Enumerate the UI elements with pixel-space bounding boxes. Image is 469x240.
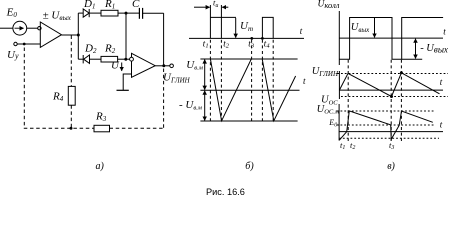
dashed timing t1c (347, 60, 349, 141)
resistor R3 (94, 125, 110, 132)
pulse t1 edge (209, 5, 211, 38)
svg-text:t1: t1 (203, 38, 209, 49)
sawtooth Uглин (339, 73, 439, 97)
label б) (245, 161, 254, 172)
tick c2 top level (336, 73, 339, 75)
label R4 (52, 91, 64, 104)
dashed timing line t4 (261, 40, 263, 121)
triangle top level (200, 58, 297, 60)
svg-text:в): в) (387, 161, 395, 172)
label -Uвых (420, 43, 448, 55)
label t2 c (350, 140, 355, 151)
pulse width measure arrows (194, 6, 228, 8)
node dot t4 (261, 37, 264, 40)
label D2 (84, 43, 97, 56)
caption Рис. 16.6 (206, 187, 245, 197)
wire D1 to R1 (89, 12, 101, 14)
svg-text:Uколл: Uколл (318, 0, 340, 10)
wire branch split vertical (77, 13, 79, 59)
node dot R2/R1 junction (124, 58, 127, 61)
dotted Uос.м level (341, 110, 434, 112)
input bubble U2 (130, 57, 134, 61)
wire R2 to U2 (118, 58, 130, 60)
label -Uв.м (179, 99, 202, 112)
label R1 (104, 0, 115, 11)
svg-text:Uу: Uу (7, 49, 19, 61)
wire input to source E0 (0, 27, 13, 29)
svg-text:tи: tи (213, 0, 218, 9)
y axis c2 (338, 71, 340, 99)
svg-text:R4: R4 (52, 91, 64, 104)
node dot on Uy wire (23, 43, 26, 46)
diode D2 (83, 55, 89, 63)
resistor R2 (101, 56, 118, 62)
label t1 (203, 38, 209, 49)
output terminal bubble (170, 64, 174, 68)
label R3 (95, 111, 107, 124)
dashed wire output down to rail (163, 69, 165, 129)
label Uвых c1 (351, 22, 370, 34)
svg-text:Um: Um (240, 20, 253, 33)
label E0 (6, 7, 18, 20)
wire U2 ground input (123, 74, 131, 90)
svg-text:R3: R3 (95, 111, 107, 124)
wire U2 output (155, 65, 170, 67)
svg-text:- Uвых: - Uвых (420, 43, 448, 55)
label t4 (264, 38, 271, 49)
dotted bottom level c2 (341, 96, 448, 98)
wire D2 to R2 (90, 58, 102, 60)
node dot rail (70, 127, 73, 130)
svg-text:а): а) (96, 161, 105, 172)
diode D1 (83, 9, 89, 17)
square wave Uколл (339, 18, 443, 60)
pulse top Um level (210, 16, 236, 18)
dashed wire Uy node down (23, 48, 25, 129)
y axis c3 (338, 104, 340, 141)
dashed timing line t1 (209, 40, 211, 121)
ground (117, 89, 129, 91)
node dot peak c2 (400, 71, 403, 74)
svg-text:R2: R2 (104, 43, 116, 56)
label Uглин (163, 71, 191, 84)
svg-text:D2: D2 (84, 43, 97, 56)
wire top branch to D1 (78, 12, 83, 14)
resistor R4 (68, 86, 75, 105)
label t1 c (340, 140, 345, 151)
op-amp U1 (40, 22, 61, 47)
input bubble Uy (14, 42, 17, 45)
label t2 (223, 38, 230, 49)
svg-text:t: t (440, 119, 443, 129)
svg-text:Рис. 16.6: Рис. 16.6 (206, 187, 245, 197)
amplitude arrow lower (204, 91, 206, 121)
label C (132, 0, 140, 10)
y axis c1 (338, 11, 340, 65)
svg-text:Uв.м: Uв.м (186, 59, 203, 72)
op-amp U2 (132, 53, 156, 77)
dashed timing line pulse2 end (272, 40, 274, 121)
wire source to op-amp U1 (27, 27, 38, 29)
svg-text:D1: D1 (83, 0, 95, 11)
label Uос (321, 95, 338, 107)
wire lower branch to D2 (78, 58, 83, 60)
triangle waveform (210, 59, 295, 121)
label ± Uвых (43, 9, 72, 22)
svg-text:R1: R1 (104, 0, 115, 11)
pulse t2 edge (220, 5, 222, 38)
svg-text:t: t (300, 26, 303, 36)
label t axis b1 (300, 26, 303, 36)
svg-text:t: t (303, 76, 306, 86)
Um arrow (235, 18, 237, 38)
svg-text:t: t (440, 77, 443, 87)
label Uос.м (317, 104, 339, 116)
t axis pulse graph (189, 37, 304, 39)
label t axis c3 (440, 119, 443, 129)
dashed wire R4 to rail (70, 105, 72, 128)
svg-text:U: U (111, 60, 120, 72)
dotted E0 level (341, 124, 434, 126)
label E0 c3 (328, 118, 337, 128)
svg-text:б): б) (245, 161, 254, 172)
svg-text:E0: E0 (328, 118, 337, 128)
svg-text:± Uвых: ± Uвых (43, 9, 72, 22)
svg-text:t2: t2 (350, 140, 355, 151)
svg-text:Uвых: Uвых (351, 22, 370, 34)
wire Uy to U1 lower input (17, 43, 40, 45)
svg-text:t1: t1 (340, 140, 345, 151)
label D1 (83, 0, 95, 11)
node dot R1/C (125, 12, 128, 15)
tick Uос.м (337, 110, 340, 112)
dashed timing line t3 (251, 40, 253, 121)
triangle axis (200, 89, 299, 91)
dashed timing t2c (390, 60, 392, 141)
svg-text:t3: t3 (389, 140, 394, 151)
label t3 (248, 38, 255, 49)
label Uв.м (186, 59, 203, 72)
sawtooth Uос (339, 111, 433, 140)
wire R1 to C (118, 12, 139, 14)
node dot valley c2 (390, 95, 393, 98)
label U with down arrow (111, 60, 122, 72)
t axis c1 (339, 37, 443, 39)
svg-text:t4: t4 (264, 38, 271, 49)
t axis c2 (339, 89, 443, 91)
wire node to U2 input vertical (125, 13, 127, 59)
dashed timing t3c (400, 60, 402, 141)
label t axis c2 (440, 77, 443, 87)
label R2 (104, 43, 116, 56)
wire feedback vertical (163, 13, 165, 66)
dashed wire U1 output down to R4 (70, 36, 72, 87)
node dot U2 output (162, 64, 165, 67)
label Um (240, 20, 253, 33)
label Uy (7, 49, 19, 61)
svg-text:UГЛИН: UГЛИН (312, 66, 339, 78)
input bubble U1 (38, 27, 41, 30)
resistor R1 (101, 10, 118, 16)
svg-text:t: t (443, 26, 446, 36)
label Uглин c2 (312, 66, 339, 78)
label Uколл (318, 0, 340, 10)
-Uвых arrow (415, 39, 417, 59)
t axis c3 (339, 131, 443, 133)
dashed timing line t2 (220, 40, 222, 121)
capacitor C (139, 8, 142, 19)
svg-text:UГЛИН: UГЛИН (163, 71, 191, 84)
triangle bottom level (200, 120, 297, 122)
pulse 2 (262, 17, 273, 38)
dashed rail left (24, 127, 94, 129)
svg-text:- Uв.м: - Uв.м (179, 99, 202, 112)
dotted top level c2 (341, 73, 448, 75)
-Uвых level line (402, 58, 423, 60)
node dot t3 (250, 37, 253, 40)
label a) (96, 161, 105, 172)
label tи (213, 0, 218, 9)
svg-text:t2: t2 (223, 38, 230, 49)
current source E0 (13, 21, 27, 35)
label t3 c (389, 140, 394, 151)
amplitude arrow upper (204, 60, 206, 90)
node dot U1 output (77, 34, 80, 37)
Uвых arrow (374, 18, 376, 37)
label t axis b2 (303, 76, 306, 86)
dotted below axis level (339, 137, 439, 139)
dashed rail right (110, 127, 164, 129)
wire C to feedback vertical (143, 12, 164, 14)
svg-text:E0: E0 (6, 7, 18, 20)
label t axis c1 (443, 26, 446, 36)
tick E0 (337, 124, 340, 126)
label в) (387, 161, 395, 172)
wire U1 output (62, 34, 79, 36)
